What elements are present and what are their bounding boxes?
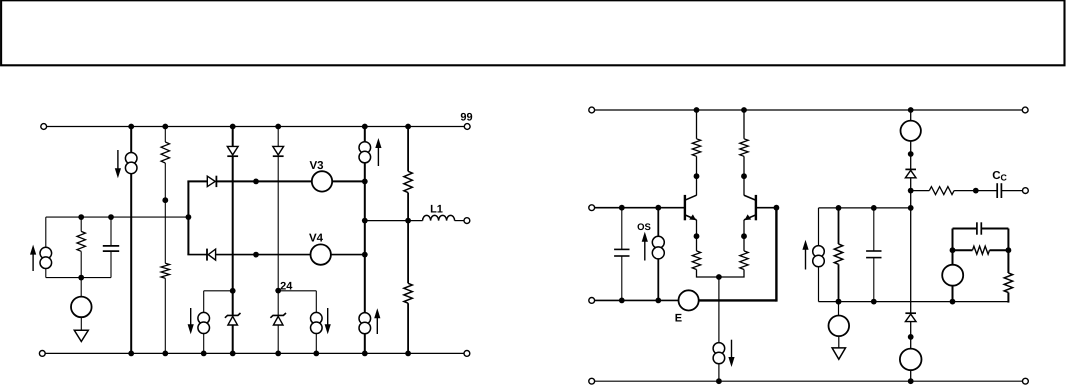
wire right bracket vertical xyxy=(315,291,317,313)
current source IOS xyxy=(652,236,664,248)
wire right top rail xyxy=(592,109,1025,111)
wire C2 upper xyxy=(621,208,623,250)
terminal bottom-left xyxy=(39,351,45,357)
arrow of I3 pointing up xyxy=(376,316,378,334)
junction dot column3/left bracket xyxy=(230,288,236,294)
transistor Q1 bar xyxy=(684,195,686,220)
node dot below V6 xyxy=(908,151,914,157)
junction dot V8/bottom row xyxy=(950,299,956,305)
terminal top-left xyxy=(41,124,47,130)
junction dot GND branch xyxy=(836,299,842,305)
wire column 3 middle segment xyxy=(232,156,234,315)
wire to source V1 xyxy=(80,278,82,297)
capacitor C3 xyxy=(866,250,881,252)
diode D1 xyxy=(227,146,238,155)
wire column 5 middle segment xyxy=(364,162,366,313)
wire column 6 top stub xyxy=(407,127,409,172)
current source I2 xyxy=(359,142,371,154)
terminal inverting input xyxy=(589,298,595,304)
wire V3 row right segment xyxy=(332,180,365,182)
node dot on V3 row xyxy=(253,179,259,185)
wire column 6 middle segment xyxy=(407,193,409,284)
wire V3 row left segment xyxy=(187,180,207,182)
junction dot main column/bottom rail xyxy=(908,378,914,384)
ground symbol left xyxy=(74,330,88,341)
diode D5 xyxy=(207,176,215,186)
terminal bottom-right xyxy=(464,351,470,357)
diode D7 xyxy=(905,168,916,170)
wire L1 row xyxy=(365,220,423,222)
terminal right-top-left xyxy=(589,107,595,113)
junction dot input/C2 xyxy=(619,205,625,211)
junction dot column5/bottom rail xyxy=(362,351,368,357)
wire left branch upper xyxy=(45,217,47,248)
junction dot input/resistor R5 xyxy=(78,214,84,220)
junction dot column2/bottom rail xyxy=(162,351,168,357)
terminal output L1 xyxy=(464,218,470,224)
wire RC network right vertical lower xyxy=(1007,293,1009,303)
wire L1 to terminal xyxy=(455,220,467,222)
wire column 5 bottom stub xyxy=(364,333,366,353)
voltage source V4 xyxy=(311,244,331,264)
junction dot column4/top rail xyxy=(275,124,281,130)
node dot on V4 row xyxy=(253,252,259,258)
junction dot column5/L1 row xyxy=(362,218,368,224)
transistor Q1 collector diagonal xyxy=(685,195,697,200)
voltage source V1 xyxy=(71,297,92,318)
wire left branch lower xyxy=(45,268,47,278)
junction dot column5/V3 row xyxy=(362,179,368,185)
wire tail lower xyxy=(718,364,720,382)
wire RIN lower xyxy=(838,264,840,301)
voltage source V5 xyxy=(829,316,850,337)
ground symbol right xyxy=(832,348,845,359)
junction dot RIN bottom xyxy=(836,299,842,305)
resistor RC1 xyxy=(692,139,700,157)
wire RC network mid right stub xyxy=(990,249,1009,251)
svg-text:99: 99 xyxy=(460,112,472,124)
junction dot column5/top rail xyxy=(362,124,368,130)
wire main column stub 5 xyxy=(910,322,912,349)
voltage source V3 xyxy=(312,171,332,191)
junction dot subcircuit bottom xyxy=(78,275,84,281)
wire RC network top right xyxy=(981,228,1008,230)
svg-text:OS: OS xyxy=(637,222,651,233)
terminal node 99 top-right xyxy=(464,124,470,130)
wire Q1 emitter vertical xyxy=(696,220,698,251)
junction dot column6/L1 row xyxy=(405,218,411,224)
wire input row xyxy=(46,216,189,218)
wire C1 branch upper xyxy=(110,217,112,246)
wire C3 upper xyxy=(873,208,875,251)
wire RC network mid left stub xyxy=(953,249,973,251)
svg-text:L1: L1 xyxy=(430,203,443,215)
arrow of I5 pointing down xyxy=(190,308,192,326)
wire to source V5 xyxy=(838,302,840,316)
wire column 3 top stub xyxy=(232,127,234,147)
wire RE2 to tail corner xyxy=(719,270,744,278)
wire V8 to bottom row xyxy=(952,286,954,302)
wire right bracket horizontal xyxy=(278,290,316,292)
junction dot RC1/top rail xyxy=(694,107,700,113)
junction dot main column row xyxy=(908,205,914,211)
wire C2 lower xyxy=(621,256,623,300)
voltage source V6 xyxy=(901,121,921,141)
resistor RC2 xyxy=(740,139,748,157)
node dot emitter Q1 xyxy=(694,233,700,239)
current source I5 xyxy=(198,312,210,324)
transistor Q2 collector diagonal xyxy=(744,195,756,200)
junction dot C3 top xyxy=(871,205,877,211)
junction dot tail/bottom rail xyxy=(716,378,722,384)
wire column 3 bottom stub xyxy=(232,325,234,354)
wire main column stub 6 xyxy=(910,370,912,381)
junction dot input/capacitor C1 xyxy=(108,214,114,220)
capacitor C2 xyxy=(614,248,629,250)
arrow of I2 pointing up xyxy=(377,146,379,166)
resistor RE2 xyxy=(740,251,748,270)
wire CC row right xyxy=(1001,190,1025,192)
diode D8 xyxy=(905,312,916,314)
junction dot input/IOS xyxy=(655,205,661,211)
capacitor CC xyxy=(996,183,998,198)
wire Q2 base to right xyxy=(756,207,777,209)
svg-text:E: E xyxy=(675,313,682,325)
junction dot column6/top rail xyxy=(405,124,411,130)
wire right-section top row xyxy=(819,207,911,209)
wire RC network left vertical xyxy=(952,229,954,266)
voltage source V8 xyxy=(942,265,963,286)
junction dot C3 bottom xyxy=(871,299,877,305)
current source I3 xyxy=(359,313,371,325)
wire column 1 upper segment xyxy=(130,127,132,154)
current source IIN xyxy=(813,246,825,258)
arrow of I6 pointing down xyxy=(327,308,329,326)
wire left bracket vertical xyxy=(203,291,205,313)
wire Q2 base vertical xyxy=(775,208,777,302)
wire V4 row right segment xyxy=(331,254,365,256)
wire bridge vertical xyxy=(187,181,189,254)
wire top supply rail node 99 xyxy=(44,126,468,128)
wire V3 row middle segment xyxy=(217,180,312,182)
capacitor C4 xyxy=(976,222,978,234)
terminal right-bottom-right xyxy=(1023,378,1029,384)
resistor RCC xyxy=(929,187,954,195)
resistor R6 xyxy=(973,246,990,254)
resistor R2 xyxy=(161,263,169,278)
junction dot column1/bottom rail xyxy=(128,351,134,357)
junction dot column3/top rail xyxy=(230,124,236,130)
zener diode D4 xyxy=(270,313,286,318)
junction dot RIN top xyxy=(836,205,842,211)
wire V1 to ground xyxy=(80,317,82,330)
wire main column stub 4 xyxy=(910,208,912,313)
wire RC1 to collector xyxy=(696,156,698,195)
node dot collector Q1 xyxy=(694,173,700,179)
wire V4 row left segment xyxy=(187,254,207,256)
current source I4 xyxy=(40,247,52,259)
wire column 2 bottom segment xyxy=(164,278,166,353)
capacitor C1 xyxy=(103,245,119,247)
wire CC row middle xyxy=(954,190,997,192)
wire main column stub 3 xyxy=(910,178,912,208)
wire E row left xyxy=(592,299,679,301)
wire IN bracket upper xyxy=(818,208,820,246)
wire Q2 emitter vertical xyxy=(743,220,745,251)
junction dot I5/bottom rail xyxy=(201,351,207,357)
wire RC network top left xyxy=(953,228,977,230)
wire column 4 bottom stub xyxy=(277,325,279,354)
wire R5 branch lower xyxy=(80,251,82,277)
wire tail upper xyxy=(718,277,720,343)
node dot above V7 xyxy=(908,334,914,340)
terminal CC output xyxy=(1023,188,1029,194)
junction dot main column/top rail xyxy=(908,107,914,113)
transistor Q2 bar xyxy=(755,195,757,220)
wire RE1 to tail corner xyxy=(697,270,719,278)
svg-text:V4: V4 xyxy=(309,232,324,244)
wire IOS upper xyxy=(657,208,659,237)
arrow of IEE pointing down xyxy=(731,340,733,359)
wire input row to Q1 base xyxy=(592,207,684,209)
junction dot R6 right xyxy=(1006,247,1012,253)
wire I6 to bottom rail xyxy=(315,333,317,354)
junction dot emitter tail node xyxy=(716,274,722,280)
resistor R5 xyxy=(77,231,85,251)
wire main column stub 1 xyxy=(910,110,912,121)
wire RC1 top stub xyxy=(696,110,698,139)
svg-text:V3: V3 xyxy=(309,160,323,172)
arrow of IIN pointing up xyxy=(805,248,807,270)
zener diode D3 xyxy=(225,313,241,318)
node dot on column 2 xyxy=(162,197,168,203)
arrow of I1 pointing down xyxy=(117,150,119,170)
junction dot column3/bottom rail xyxy=(230,351,236,357)
wire bottom supply rail xyxy=(42,352,467,354)
wire R5 branch upper xyxy=(80,217,82,231)
wire C3 lower xyxy=(873,258,875,302)
resistor R4 xyxy=(404,283,412,303)
transistor Q1 emitter arrow xyxy=(689,214,696,220)
wire C1 branch lower xyxy=(110,251,112,278)
node dot collector Q2 xyxy=(741,173,747,179)
wire subcircuit bottom xyxy=(46,277,111,279)
arrow of I4 pointing up xyxy=(32,253,34,271)
wire V4 row middle segment xyxy=(216,254,311,256)
wire IN bracket lower xyxy=(818,266,820,301)
junction dot I6/bottom rail xyxy=(313,351,319,357)
wire column 4 middle segment xyxy=(277,156,279,315)
current source I6 xyxy=(311,312,323,324)
junction dot column2/top rail xyxy=(162,124,168,130)
resistor RIN xyxy=(834,244,842,264)
junction dot column4/bottom rail xyxy=(275,351,281,357)
junction dot Q2 base node xyxy=(774,205,780,211)
wire V5 to ground xyxy=(838,336,840,348)
junction dot C2/E row xyxy=(619,298,625,304)
resistor RE1 xyxy=(692,251,700,270)
junction dot column1/top rail xyxy=(128,124,134,130)
diode D2 xyxy=(273,146,284,155)
junction dot column6/bottom rail xyxy=(405,351,411,357)
resistor R3 xyxy=(404,171,412,192)
wire column 2 top stub xyxy=(164,127,166,143)
voltage source V7 xyxy=(900,349,922,371)
terminal right-top-right xyxy=(1022,107,1028,113)
wire column 4 top stub xyxy=(277,127,279,147)
wire I5 to bottom rail xyxy=(203,333,205,354)
node dot emitter Q2 xyxy=(741,233,747,239)
wire column 2 middle segment xyxy=(164,163,166,263)
wire right bottom rail xyxy=(592,380,1026,382)
wire RC2 top stub xyxy=(743,110,745,139)
wire RC2 to collector xyxy=(743,156,745,195)
voltage source E xyxy=(679,290,699,310)
junction dot IOS/E row xyxy=(655,298,661,304)
svg-text:CC: CC xyxy=(992,170,1007,182)
resistor R7 xyxy=(1004,273,1012,293)
wire main column stub 2 xyxy=(910,141,912,169)
junction dot bridge/input wire xyxy=(186,214,192,220)
transistor Q1 emitter diagonal xyxy=(685,215,697,220)
wire RC network right vertical upper xyxy=(1007,229,1009,274)
empty title box frame xyxy=(1,0,1064,65)
wire CC row left xyxy=(911,190,930,192)
node dot CC row xyxy=(973,188,979,194)
wire right-section bottom row xyxy=(819,301,1009,303)
node dot compensation node xyxy=(908,188,914,194)
node 24 dot xyxy=(275,288,281,294)
arrow of IOS pointing up xyxy=(644,240,646,261)
wire column 1 lower segment xyxy=(130,173,132,353)
junction dot RC2/top rail xyxy=(741,107,747,113)
junction dot column5/V4 row xyxy=(362,252,368,258)
wire column 5 top stub xyxy=(364,127,366,143)
junction dot R6 left xyxy=(950,247,956,253)
diode D6 xyxy=(206,249,208,261)
inductor L1 xyxy=(423,215,455,220)
current source I1 xyxy=(125,153,137,165)
wire column 6 bottom stub xyxy=(407,303,409,353)
terminal noninverting input xyxy=(589,205,595,211)
wire left bracket horizontal xyxy=(204,290,233,292)
transistor Q2 emitter arrow xyxy=(745,214,752,220)
terminal right-bottom-left xyxy=(589,378,595,384)
wire IOS lower xyxy=(657,259,659,301)
resistor R1 xyxy=(161,142,169,163)
current source IEE xyxy=(713,343,725,355)
transistor Q2 emitter diagonal xyxy=(744,215,756,220)
wire E row right thick xyxy=(699,299,777,301)
wire RIN upper xyxy=(838,208,840,244)
